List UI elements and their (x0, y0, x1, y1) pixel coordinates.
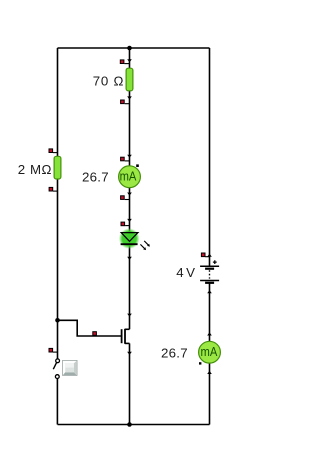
svg-text:26.7: 26.7 (82, 169, 109, 184)
svg-text:26.7: 26.7 (161, 345, 188, 360)
svg-text:70 Ω: 70 Ω (93, 74, 124, 89)
svg-text:mA: mA (201, 344, 218, 359)
svg-text:4 V: 4 V (176, 265, 195, 280)
svg-text:mA: mA (120, 168, 137, 183)
svg-text:2 MΩ: 2 MΩ (18, 162, 52, 177)
